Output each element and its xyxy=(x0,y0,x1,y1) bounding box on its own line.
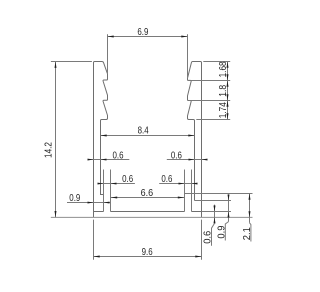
svg-text:0.6: 0.6 xyxy=(203,230,214,243)
svg-text:6.9: 6.9 xyxy=(137,27,148,38)
svg-text:0.6: 0.6 xyxy=(122,174,133,185)
svg-text:9.6: 9.6 xyxy=(142,247,153,258)
svg-text:1.74: 1.74 xyxy=(218,102,229,118)
svg-text:0.9: 0.9 xyxy=(69,193,80,204)
svg-text:6.6: 6.6 xyxy=(141,188,154,199)
svg-text:2.1: 2.1 xyxy=(242,227,253,240)
svg-text:0.6: 0.6 xyxy=(113,150,124,161)
svg-text:1.8: 1.8 xyxy=(218,84,229,96)
svg-text:8.4: 8.4 xyxy=(138,126,149,137)
svg-text:0.9: 0.9 xyxy=(217,225,228,238)
svg-text:14.2: 14.2 xyxy=(43,142,54,158)
svg-text:1.68: 1.68 xyxy=(218,61,229,77)
svg-text:0.6: 0.6 xyxy=(161,174,172,185)
svg-text:0.6: 0.6 xyxy=(171,150,182,161)
